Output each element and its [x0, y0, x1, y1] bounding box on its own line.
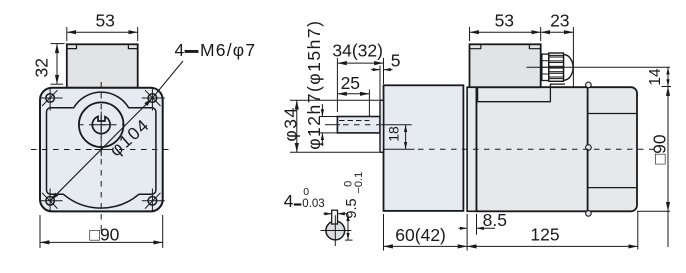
svg-text:8.5: 8.5 [483, 210, 507, 230]
svg-text:32: 32 [32, 58, 52, 77]
phi104 bolt-circle diameter line [50, 98, 152, 201]
svg-text:0.03: 0.03 [302, 198, 324, 210]
svg-text:9.5: 9.5 [344, 198, 360, 218]
svg-text:60(42): 60(42) [395, 225, 446, 245]
svg-text:φ34: φ34 [280, 106, 300, 141]
dimension 4 -0.03 keyway width [284, 186, 348, 214]
motor body (side) [477, 87, 638, 211]
dimension 9.5 -0.1 key depth [342, 172, 365, 240]
svg-text:M6/φ7: M6/φ7 [200, 40, 256, 60]
dimension square90 (front, flange width) [40, 215, 163, 248]
dimension 5 collar offset [371, 51, 400, 100]
leader 4-M6/phi7 [152, 40, 256, 98]
corner hole bottom-left [40, 189, 63, 212]
svg-text:18: 18 [385, 126, 401, 142]
svg-text:0: 0 [303, 186, 309, 198]
svg-text:53: 53 [495, 10, 514, 30]
gland centerline / 14 extension [527, 66, 671, 68]
svg-text:φ12h7(φ15h7): φ12h7(φ15h7) [304, 20, 324, 150]
centerline solid ticks at shaft and flange center [92, 124, 112, 126]
svg-text:14: 14 [647, 68, 664, 86]
section crosshair [321, 230, 352, 232]
through-bolt circles [586, 82, 592, 88]
motor rear section line [587, 87, 589, 211]
keyway hidden line on shaft [339, 120, 369, 122]
dimension phi12h7(phi15h7) shaft dia [304, 20, 338, 150]
dimension 34(32) shaft length [332, 41, 383, 112]
dimension 125 motor length [467, 212, 638, 250]
svg-text:125: 125 [530, 225, 559, 245]
svg-text:34(32): 34(32) [332, 41, 383, 61]
svg-text:4: 4 [284, 191, 294, 211]
shaft horizontal centerline (front) [78, 124, 125, 126]
gearhead flange (front view outer square) [40, 88, 163, 212]
corner hole top-right [142, 88, 165, 111]
svg-text:25: 25 [341, 73, 360, 93]
dimension square90 (motor frame) [637, 87, 670, 248]
dimension 25 keyway length [337, 73, 369, 117]
terminal box base plate (side) [478, 84, 565, 102]
flange horizontal centerline [31, 149, 172, 151]
svg-text:□90: □90 [89, 224, 119, 244]
motor flange plate line [467, 87, 476, 211]
svg-text:−0.1: −0.1 [353, 172, 365, 194]
svg-text:4: 4 [175, 40, 185, 60]
svg-text:□90: □90 [650, 134, 670, 164]
dimension 8.5 (motor pilot) [459, 210, 507, 250]
motor axis centerline [384, 148, 415, 150]
rear cover step lines [588, 113, 637, 115]
keyway slot [332, 210, 338, 224]
terminal box (side) [470, 44, 541, 87]
dimension 60(42) gearhead length [384, 214, 468, 251]
dimension 53 (front, terminal box width) [67, 10, 138, 41]
gearhead body (side) [384, 85, 464, 211]
flange vertical centerline [100, 82, 102, 232]
dimension phi34 collar [280, 100, 379, 152]
dimension 14 (gland center height) [647, 67, 671, 86]
shaft axis centerline [325, 124, 340, 126]
output shaft (side) [337, 117, 380, 133]
svg-text:23: 23 [550, 10, 569, 30]
cable gland [542, 53, 573, 81]
boss circle (front) [79, 102, 124, 147]
gearhead case inner profile [47, 92, 156, 208]
dimension 53 (side, terminal box) [470, 10, 541, 41]
shaft section circle [326, 221, 345, 240]
dimension 18 shaft offset [385, 125, 405, 150]
corner hole bottom-right [142, 189, 165, 212]
shaft collar (phi34 boss) [380, 100, 384, 152]
svg-text:5: 5 [391, 51, 401, 71]
output shaft with keyway (front) [92, 116, 110, 133]
dimension 23 (gland) [541, 10, 574, 88]
corner hole top-left [40, 88, 63, 111]
svg-text:53: 53 [95, 10, 114, 30]
terminal box (front view) [67, 44, 138, 88]
dimension 32 (front, terminal box height) [32, 44, 65, 85]
